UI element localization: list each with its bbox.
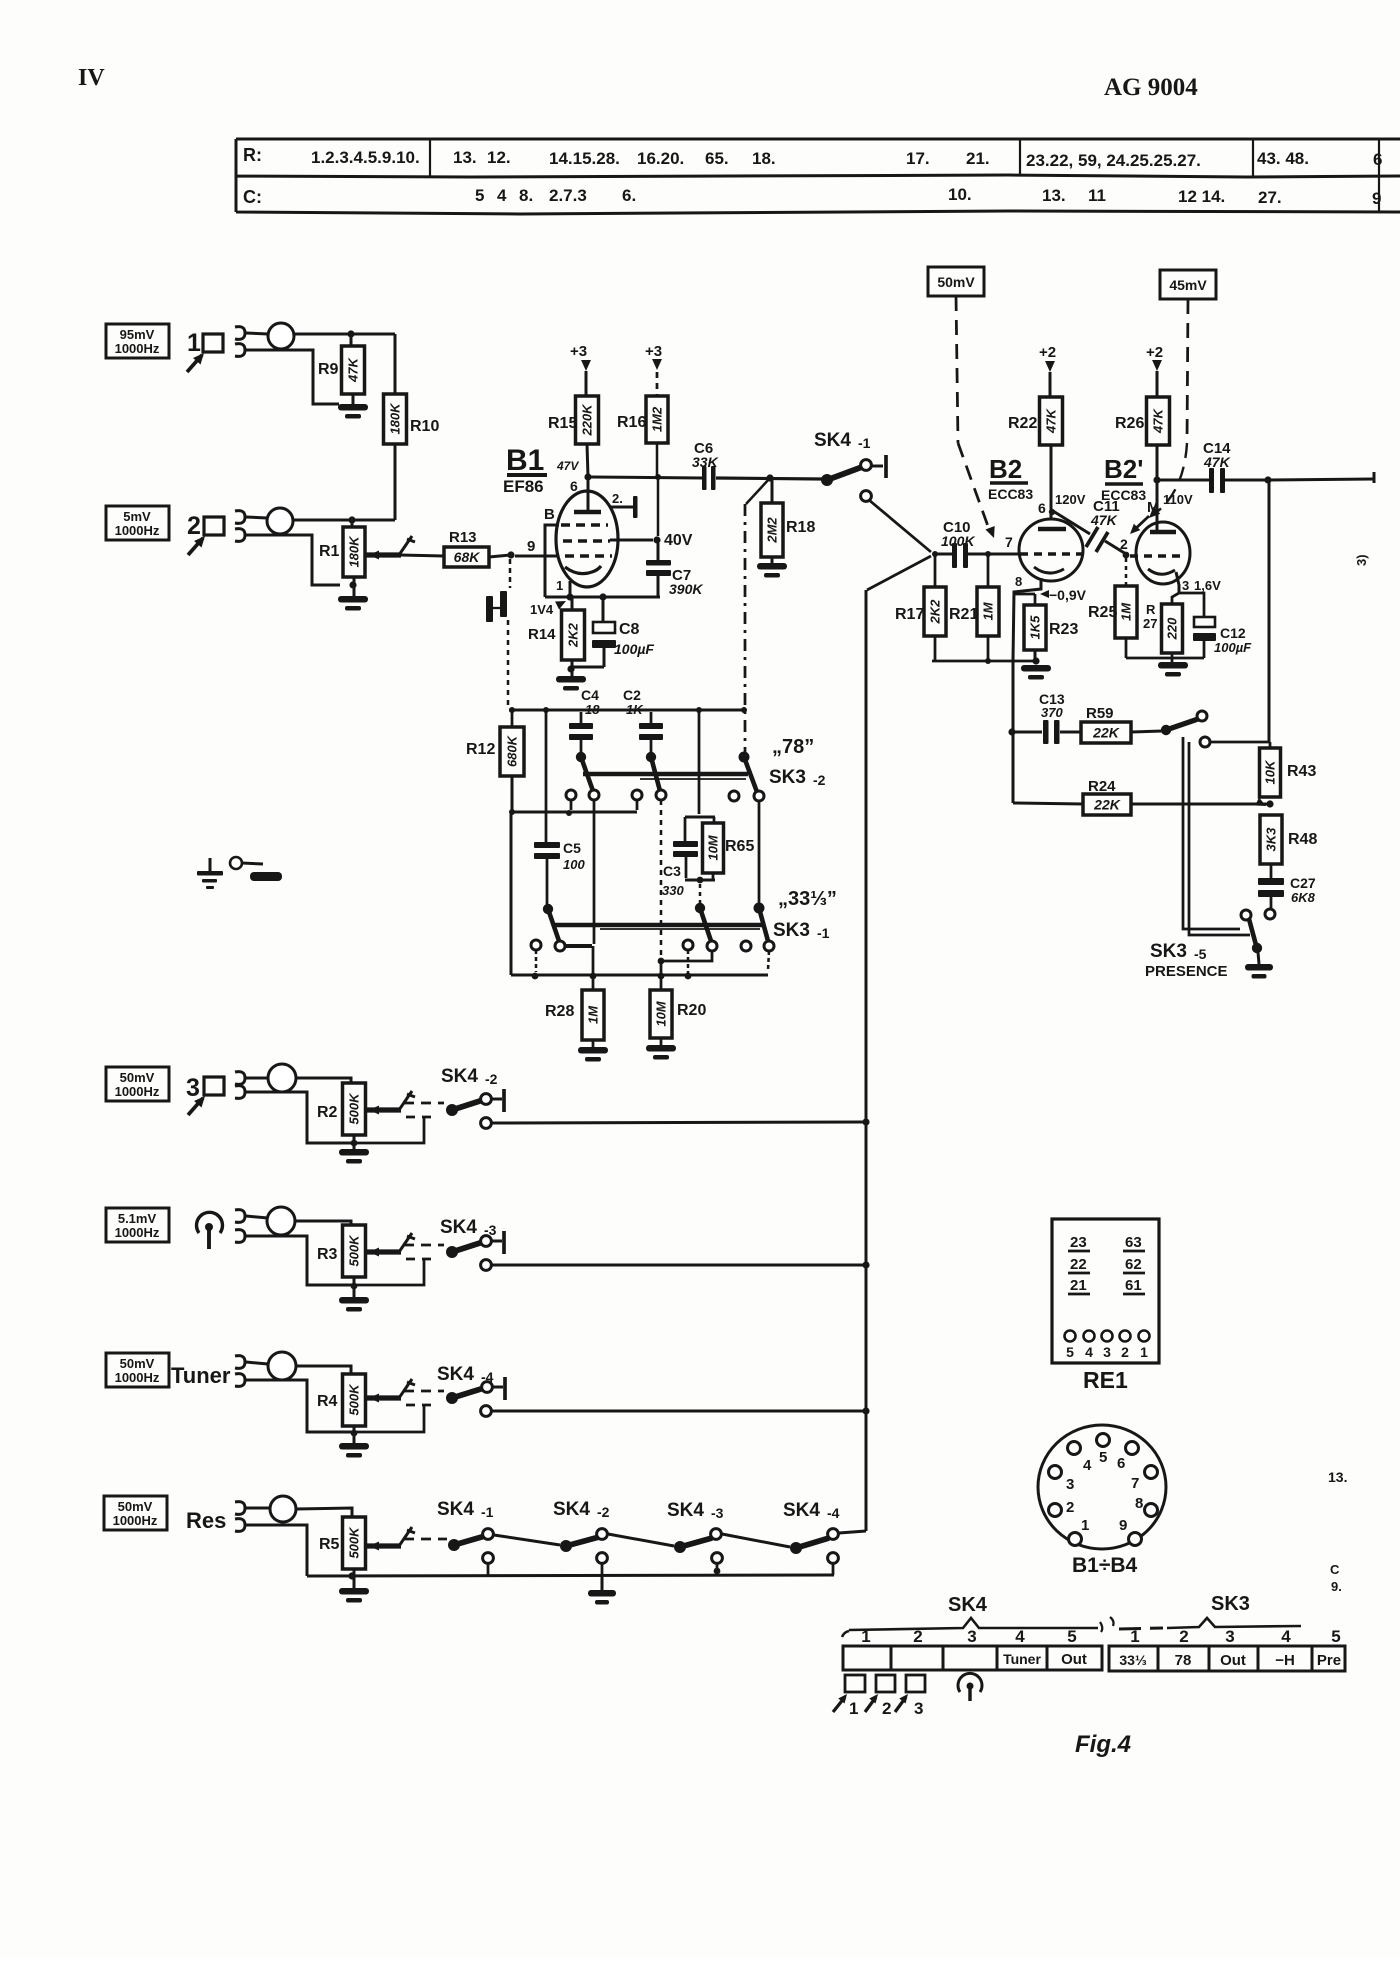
B2' cathode ground (1125, 638, 1128, 658)
svg-text:9.: 9. (1331, 1579, 1342, 1594)
svg-text:ECC83: ECC83 (1101, 487, 1146, 503)
svg-text:3: 3 (1182, 578, 1189, 593)
svg-text:-2: -2 (485, 1071, 498, 1087)
svg-text:95mV: 95mV (120, 327, 155, 342)
switch SK3-1 contact a (543, 904, 553, 914)
input 4 connector circle (267, 1207, 295, 1235)
svg-text:500K: 500K (347, 1383, 362, 1416)
R14 to ground (571, 660, 574, 676)
svg-text:5: 5 (1066, 1344, 1074, 1360)
B1 grid g2 dashes (563, 539, 610, 542)
capacitor C27 6K8 (1270, 864, 1273, 878)
socket pin 7 (1145, 1466, 1158, 1479)
SK4-3 lower contact (712, 1553, 723, 1564)
svg-text:-1: -1 (817, 925, 830, 941)
svg-text:R4: R4 (317, 1393, 338, 1410)
svg-text:-2: -2 (813, 772, 826, 788)
wire res top to R5 (246, 1507, 270, 1510)
svg-text:47K: 47K (1090, 512, 1118, 528)
svg-text:2: 2 (1179, 1627, 1188, 1646)
resistor R14 2K2 (571, 597, 574, 610)
wire tuner top to R4 (246, 1362, 268, 1364)
svg-text:1,6V: 1,6V (1194, 578, 1221, 593)
svg-text:1: 1 (849, 1699, 858, 1718)
B1 anode (587, 477, 590, 511)
socket pin 4 (1068, 1442, 1081, 1455)
input 1 plug icon (203, 334, 223, 352)
socket pin 1 (1069, 1533, 1082, 1546)
svg-text:6: 6 (1117, 1455, 1125, 1472)
svg-text:9: 9 (1119, 1517, 1127, 1534)
svg-text:1M: 1M (981, 601, 996, 620)
svg-text:8.: 8. (519, 186, 533, 205)
svg-text:1000Hz: 1000Hz (115, 341, 160, 356)
svg-text:33⅓: 33⅓ (1119, 1652, 1147, 1668)
R2 wiper (366, 1107, 401, 1112)
svg-text:1000Hz: 1000Hz (115, 1225, 160, 1240)
dashed 50mV pointer (956, 296, 958, 443)
SK4-1 lower contact (861, 491, 872, 502)
svg-text:3: 3 (186, 1074, 200, 1102)
svg-text:SK4: SK4 (437, 1499, 474, 1520)
svg-text:13.: 13. (1042, 186, 1066, 205)
svg-text:+3: +3 (645, 343, 662, 360)
SK3 table cells (1109, 1646, 1345, 1671)
B2 grid dashes pin 7 (1020, 552, 1082, 555)
svg-text:7: 7 (1005, 534, 1013, 550)
svg-text:50mV: 50mV (118, 1499, 153, 1514)
svg-text:18.: 18. (752, 149, 776, 168)
R5 wiper (366, 1543, 401, 1548)
svg-text:2K2: 2K2 (928, 599, 943, 625)
svg-text:500K: 500K (347, 1234, 362, 1267)
wire junction to SK3-2 dashed drop (746, 478, 770, 504)
wire input3 bottom to ground (246, 1092, 354, 1143)
svg-text:R17: R17 (895, 606, 924, 623)
ground under R3 (353, 1277, 356, 1297)
switch SK4-2 input (446, 1104, 458, 1116)
ground under R9 (352, 394, 355, 404)
wire cathode bus down to feedback (1012, 660, 1015, 803)
B2 cathode lead (1013, 578, 1041, 660)
svg-text:3: 3 (967, 1627, 976, 1646)
wire input1 bottom to ground (246, 350, 339, 404)
B2' cathode (1148, 569, 1175, 574)
svg-text:3: 3 (1103, 1344, 1111, 1360)
svg-text:27.: 27. (1258, 188, 1282, 207)
svg-text:C: C (1330, 1562, 1340, 1577)
svg-text:RE1: RE1 (1083, 1367, 1128, 1393)
wire tuner bottom to ground (246, 1380, 354, 1432)
svg-text:SK4: SK4 (948, 1594, 988, 1616)
svg-text:47K: 47K (1044, 407, 1059, 433)
ground under R28 (592, 1040, 595, 1047)
svg-text:9: 9 (1372, 189, 1381, 208)
svg-text:EF86: EF86 (503, 477, 544, 496)
wire input1 top to node (246, 333, 268, 334)
svg-text:SK4: SK4 (814, 430, 851, 451)
svg-text:AG 9004: AG 9004 (1104, 74, 1198, 101)
svg-text:Tuner: Tuner (171, 1363, 231, 1388)
svg-text:50mV: 50mV (120, 1070, 155, 1085)
wire R15 to anode node (587, 444, 588, 477)
svg-text:R16: R16 (617, 414, 646, 431)
switch SK3-1 contact c (754, 903, 765, 914)
wire lower contacts to R12 rail (511, 811, 637, 814)
wire to SK4-3 pivot (608, 1534, 674, 1546)
SK4 brace (842, 1618, 1098, 1637)
grid bus top line (509, 709, 744, 712)
svg-text:R2: R2 (317, 1104, 338, 1121)
svg-text:1V4: 1V4 (530, 602, 554, 617)
svg-text:13.: 13. (453, 148, 477, 167)
input 3 connector circle (268, 1064, 296, 1092)
input 2 plug icon (204, 517, 224, 535)
tuner connector circle (268, 1352, 296, 1380)
svg-text:Pre: Pre (1317, 1652, 1341, 1669)
svg-text:R12: R12 (466, 741, 495, 758)
ground under R4 (353, 1426, 356, 1443)
res connector circle (270, 1496, 296, 1522)
B1 pin1 to R14 (569, 581, 572, 597)
svg-text:370: 370 (1041, 705, 1063, 720)
svg-text:-1: -1 (858, 435, 871, 451)
svg-text:22K: 22K (1092, 725, 1120, 741)
SK4-3 lower contact to bus (481, 1260, 492, 1271)
input 4 terminals (235, 1210, 245, 1223)
switch SK3-2 contact b (646, 752, 656, 762)
wiper return wire (354, 1405, 424, 1432)
svg-text:6: 6 (570, 478, 578, 494)
potentiometer R1 180K (351, 520, 354, 527)
wire C6 to junction (716, 478, 822, 479)
res terminals (235, 1502, 245, 1515)
dashed 45mV pointer (1187, 299, 1188, 443)
potentiometer R4 500K (343, 1374, 366, 1426)
switch SK4-3 input (446, 1246, 458, 1258)
svg-text:C27: C27 (1290, 875, 1316, 891)
svg-text:6: 6 (1373, 150, 1382, 169)
svg-text:5: 5 (1099, 1449, 1107, 1466)
svg-text:B1: B1 (506, 444, 544, 477)
variable capacitor C11 47K (1049, 509, 1055, 515)
B2' anode electrode (1150, 530, 1176, 535)
wire to SK4-2 pivot (494, 1535, 560, 1545)
switch SK4-3 bottom (674, 1541, 686, 1553)
resistor R28 1M (592, 946, 595, 990)
switch SK3-2 contact c (739, 752, 750, 763)
pick-up icon (196, 1212, 222, 1233)
svg-text:50mV: 50mV (120, 1356, 155, 1371)
wire input2 bottom to ground (246, 535, 340, 585)
svg-text:18: 18 (585, 702, 600, 717)
SK4-4 lower contact (828, 1553, 839, 1564)
wire R13 to grid node 9 (489, 555, 511, 557)
svg-text:500K: 500K (347, 1526, 362, 1559)
svg-text:R48: R48 (1288, 831, 1317, 848)
svg-text:2: 2 (913, 1627, 922, 1646)
SK4 table cells (843, 1646, 1102, 1670)
svg-text:4: 4 (1083, 1457, 1092, 1474)
svg-text:C:: C: (243, 187, 262, 207)
switch SK4-1 (821, 474, 833, 486)
svg-text:R10: R10 (410, 418, 439, 435)
potentiometer R3 500K (343, 1225, 366, 1277)
R1 wiper arrow (366, 552, 401, 557)
switch SK4-4 input (446, 1392, 458, 1404)
input 2 terminals (235, 511, 245, 524)
SK4-4 lower contact to bus (481, 1406, 492, 1417)
svg-text:110V: 110V (1163, 492, 1193, 507)
B1 grid g1 dashes (565, 554, 612, 557)
svg-text:C8: C8 (619, 621, 640, 638)
svg-text:680K: 680K (505, 734, 520, 767)
resistor R65 10M with C3 (698, 712, 701, 814)
svg-text:R3: R3 (317, 1246, 338, 1263)
capacitor C5 100 (545, 710, 548, 842)
svg-text:Out: Out (1220, 1652, 1246, 1669)
svg-text:SK4: SK4 (667, 1500, 704, 1521)
svg-text:390K: 390K (669, 581, 703, 597)
resistor R18 2M2 (771, 479, 774, 503)
wire input4 bottom to ground (246, 1236, 354, 1285)
svg-text:43. 48.: 43. 48. (1257, 149, 1309, 168)
svg-text:11: 11 (1088, 186, 1106, 205)
switch SK3-5 (1265, 909, 1275, 919)
svg-text:100K: 100K (941, 533, 975, 549)
svg-text:B2': B2' (1104, 454, 1143, 484)
B2 cathode (1034, 567, 1064, 573)
wire R16 down to screen (656, 443, 659, 475)
R4 wiper (366, 1395, 401, 1400)
input label 50mV 1000Hz (res) (104, 1496, 167, 1530)
svg-text:10K: 10K (1263, 759, 1278, 784)
input label 50mV 1000Hz (3) (106, 1067, 169, 1101)
svg-text:IV: IV (78, 65, 105, 91)
svg-text:9: 9 (527, 538, 535, 555)
svg-text:65.: 65. (705, 149, 729, 168)
wire C2 contact down dashed (660, 800, 663, 955)
svg-text:R22: R22 (1008, 415, 1037, 432)
svg-text:180K: 180K (388, 402, 403, 435)
tube socket outline (1038, 1425, 1166, 1549)
svg-text:R14: R14 (528, 626, 556, 643)
RE1 pins (1065, 1331, 1076, 1342)
B1 cathode bus (545, 596, 660, 599)
svg-text:SK4: SK4 (783, 1500, 820, 1521)
svg-text:63: 63 (1125, 1234, 1142, 1251)
SK3 brace (1119, 1628, 1163, 1629)
svg-text:1K5: 1K5 (1028, 615, 1043, 640)
svg-text:40V: 40V (664, 532, 693, 549)
input label 5mV 1000Hz (106, 506, 169, 540)
resistor R12 680K (511, 710, 514, 727)
resistor R21 1M (987, 554, 990, 587)
voltage -0.9V (1040, 590, 1049, 598)
resistor R10 180K (384, 394, 407, 444)
svg-text:C12: C12 (1220, 625, 1246, 641)
svg-text:45mV: 45mV (1169, 277, 1207, 293)
capacitor C8 100uF (602, 597, 605, 622)
svg-text:16.20.: 16.20. (637, 149, 684, 168)
tube B2 envelope (1019, 519, 1083, 581)
dashed wire down to R12 (507, 620, 510, 709)
SK4 plug icon 3 (906, 1675, 925, 1692)
svg-text:78: 78 (1175, 1652, 1192, 1669)
svg-text:1000Hz: 1000Hz (115, 1370, 160, 1385)
capacitor C12 100uF (1194, 617, 1215, 627)
wire input4 top to R3 (246, 1216, 268, 1218)
svg-text:100µF: 100µF (614, 641, 654, 657)
svg-text:2: 2 (1066, 1499, 1074, 1516)
svg-text:C4: C4 (581, 687, 599, 703)
SK4 plug icon 1 (845, 1675, 865, 1692)
svg-text:22: 22 (1070, 1256, 1087, 1273)
R5 to ground (353, 1569, 356, 1588)
svg-text:SK3: SK3 (1150, 941, 1187, 962)
SK4-2 lower contact to bus (481, 1118, 492, 1129)
svg-text:SK3: SK3 (773, 920, 810, 941)
svg-text:68K: 68K (454, 549, 481, 565)
svg-text:+2: +2 (1146, 344, 1163, 361)
svg-text:ECC83: ECC83 (988, 486, 1033, 502)
svg-text:120V: 120V (1055, 492, 1086, 507)
svg-text:17.: 17. (906, 149, 930, 168)
svg-text:R21: R21 (949, 606, 978, 623)
resistor R9 47K (350, 334, 353, 346)
switch SK4-4 bottom (790, 1542, 802, 1554)
svg-text:R:: R: (243, 145, 262, 165)
svg-text:1000Hz: 1000Hz (115, 1084, 160, 1099)
svg-text:1000Hz: 1000Hz (115, 523, 160, 538)
svg-text:2.7.3: 2.7.3 (549, 186, 587, 205)
svg-text:5: 5 (475, 186, 484, 205)
presence switch wires (1183, 737, 1240, 929)
resistor R22 47K (1040, 397, 1063, 445)
switch SK3-2 contact a (576, 752, 586, 762)
svg-text:Res: Res (186, 1508, 226, 1533)
svg-text:5: 5 (1331, 1627, 1340, 1646)
B1 cathode (565, 566, 601, 574)
svg-text:1M: 1M (1119, 602, 1134, 621)
svg-text:500K: 500K (347, 1092, 362, 1125)
svg-text:10.: 10. (948, 185, 972, 204)
svg-text:R: R (1146, 602, 1156, 617)
svg-text:3: 3 (914, 1699, 923, 1718)
resistor R20 10M (660, 961, 663, 990)
B1 grid g3 dashes (561, 523, 608, 526)
svg-text:−H: −H (1275, 1652, 1295, 1669)
switch after R59 (1131, 731, 1162, 732)
cathode branch to R23 (1013, 593, 1035, 596)
svg-text:1.2.3.4.5.9.10.: 1.2.3.4.5.9.10. (311, 148, 420, 167)
svg-text:R23: R23 (1049, 621, 1078, 638)
resistor R48 3K3 (1260, 815, 1282, 864)
wire node to R10 branch (351, 333, 395, 336)
B2' cathode lead pin 3 (1176, 572, 1179, 593)
svg-text:C5: C5 (563, 840, 581, 856)
ground under R2 (353, 1135, 356, 1149)
50mV callout box (928, 267, 984, 296)
left rail down to SK3-1 bus (510, 812, 513, 975)
svg-text:SK3: SK3 (769, 767, 806, 788)
svg-text:2K2: 2K2 (566, 622, 581, 648)
svg-text:2: 2 (882, 1699, 891, 1718)
svg-text:21: 21 (1070, 1277, 1087, 1294)
wire SK4-1 to B2 grid node (869, 500, 931, 552)
svg-text:12 14.: 12 14. (1178, 187, 1225, 206)
svg-text:4: 4 (1085, 1344, 1093, 1360)
R23 to ground (1034, 650, 1037, 662)
svg-text:180K: 180K (347, 535, 362, 568)
svg-text:2: 2 (1121, 1344, 1129, 1360)
ground under R18 (771, 557, 774, 563)
capacitor C3 330 (673, 841, 698, 847)
input label 50mV 1000Hz (tuner) (106, 1353, 169, 1387)
wire R26 to B2' anode (1156, 445, 1159, 532)
svg-text:PRESENCE: PRESENCE (1145, 963, 1228, 980)
wire to SK4-4 pivot (722, 1534, 790, 1547)
svg-text:50mV: 50mV (937, 274, 975, 290)
svg-text:1K: 1K (626, 702, 644, 717)
input 1 screened connector circle (268, 323, 294, 349)
svg-text:13.: 13. (1328, 1469, 1347, 1485)
svg-text:R18: R18 (786, 519, 815, 536)
svg-text:R25: R25 (1088, 604, 1117, 621)
svg-text:6.: 6. (622, 186, 636, 205)
resistor R16 1M2 (646, 396, 668, 443)
svg-text:1: 1 (861, 1627, 870, 1646)
input 2 connector circle (267, 508, 293, 534)
SK3-1 bottom bus (511, 974, 768, 977)
svg-text:47K: 47K (1203, 454, 1231, 470)
switch SK3-1 contact b (695, 903, 705, 913)
svg-text:330: 330 (662, 883, 684, 898)
switch common bus (307, 1575, 834, 1576)
chassis contact legend (230, 857, 242, 869)
svg-text:22K: 22K (1093, 797, 1121, 813)
svg-text:62: 62 (1125, 1256, 1142, 1273)
svg-text:SK4: SK4 (441, 1066, 478, 1087)
wire input3 top to R2 (246, 1077, 268, 1080)
ground symbol legend (209, 858, 212, 871)
parts index table frame (236, 139, 1400, 214)
svg-text:Out: Out (1061, 1651, 1087, 1668)
wire switch to R43 (1210, 741, 1269, 744)
resistor R26 47K (1147, 397, 1170, 445)
svg-text:R9: R9 (318, 361, 339, 378)
svg-text:23.22, 59, 24.25.25.27.: 23.22, 59, 24.25.25.27. (1026, 151, 1201, 170)
cathode to R27 and C12 (1172, 593, 1179, 604)
svg-text:23: 23 (1070, 1234, 1087, 1251)
screen grid wire 40V (610, 539, 653, 542)
wire R10 to input2 node (394, 444, 397, 520)
svg-text:3: 3 (1066, 1476, 1074, 1493)
svg-text:27: 27 (1143, 616, 1157, 631)
tube B1 envelope (556, 491, 618, 587)
svg-text:100µF: 100µF (1214, 640, 1252, 655)
svg-text:7: 7 (1131, 1475, 1139, 1492)
svg-text:-4: -4 (827, 1505, 840, 1521)
svg-text:4: 4 (1015, 1627, 1025, 1646)
svg-text:-3: -3 (711, 1505, 724, 1521)
svg-text:Tuner: Tuner (1003, 1651, 1041, 1667)
svg-text:10M: 10M (654, 1000, 669, 1026)
wire grid to tube B1 (515, 555, 557, 558)
socket pin 3 (1049, 1466, 1062, 1479)
input 3 terminals (235, 1072, 245, 1085)
input 1 terminals (235, 327, 245, 340)
